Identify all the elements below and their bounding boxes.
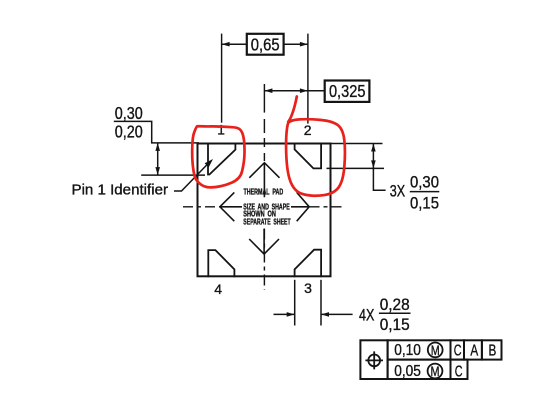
dimension line 0,65 — [222, 43, 308, 45]
bottom dimension line right arrow — [321, 313, 353, 315]
dimension box 0,65 — [247, 34, 284, 55]
red annotation loop around pin 1 — [192, 126, 244, 187]
svg-text:SHOWN ON: SHOWN ON — [243, 211, 276, 219]
horizontal centerline (left) — [183, 206, 220, 208]
arrowhead left-dim down — [155, 167, 160, 175]
thermal pad arrow down — [249, 229, 279, 254]
dimension line 0,325 — [264, 90, 324, 92]
vertical centerline extension (solid upper part) — [263, 84, 265, 113]
svg-text:C: C — [454, 343, 462, 360]
arrowhead 0,65 right — [300, 42, 308, 47]
feature control frame outer box — [360, 340, 501, 379]
thermal pad arrow up — [249, 163, 279, 198]
svg-text:M: M — [431, 342, 440, 358]
pad pin 1 (chamfered pin-1 identifier pad) — [208, 143, 235, 175]
pin 1 leader line — [174, 163, 208, 191]
svg-text:0,28: 0,28 — [380, 296, 410, 314]
pad pin 3 — [295, 250, 322, 278]
horizontal centerline (right) — [310, 206, 346, 208]
right top extension line — [331, 143, 383, 145]
svg-text:M: M — [431, 363, 440, 379]
position tolerance symbol — [365, 351, 383, 369]
thermal pad arrow right — [291, 192, 309, 221]
svg-text:0,20: 0,20 — [115, 122, 143, 142]
right dimension line and elbow leader — [373, 144, 385, 191]
arrowhead right-dim down — [371, 160, 376, 168]
arrowhead left-dim up — [155, 143, 160, 151]
svg-text:B: B — [489, 342, 497, 359]
bottom extension line pad3 right — [320, 280, 322, 326]
svg-text:C: C — [455, 363, 463, 380]
svg-text:0,325: 0,325 — [329, 81, 366, 101]
svg-text:SEPARATE SHEET: SEPARATE SHEET — [243, 219, 290, 227]
left dimension fraction bar and elbow leader — [114, 121, 152, 142]
arrowhead 0,325 left — [264, 88, 272, 93]
vertical centerline (dashed into package) — [263, 119, 265, 161]
svg-text:3: 3 — [304, 280, 312, 296]
package body outline — [198, 144, 331, 277]
thermal pad note text — [243, 189, 290, 227]
extension line pin 2 center — [307, 34, 309, 124]
svg-text:0,15: 0,15 — [380, 316, 410, 334]
svg-text:4X: 4X — [359, 306, 374, 324]
left bottom extension line — [141, 174, 205, 176]
bottom dimension line left arrow — [274, 313, 295, 315]
svg-text:3X: 3X — [390, 182, 405, 200]
bottom extension line pad3 left — [294, 280, 296, 326]
svg-text:A: A — [470, 342, 478, 359]
arrowhead bottom-dim left (points right) — [287, 312, 295, 317]
arrowhead right-dim up — [371, 144, 376, 152]
extension line pin 1 center — [221, 34, 223, 123]
left top extension line — [151, 142, 199, 144]
svg-text:0,05: 0,05 — [394, 363, 421, 380]
svg-text:0,30: 0,30 — [410, 174, 439, 192]
thermal pad arrow left — [220, 192, 242, 221]
svg-text:4: 4 — [214, 281, 222, 297]
svg-text:0,30: 0,30 — [115, 103, 143, 123]
dimension box 0,325 — [325, 81, 370, 102]
pad pin 2 — [295, 143, 322, 169]
left dimension line with arrows — [157, 143, 159, 175]
pad pin 4 — [208, 250, 234, 277]
arrowhead bottom-dim right (points left) — [321, 312, 329, 317]
svg-text:Pin 1 Identifier: Pin 1 Identifier — [72, 183, 169, 199]
right bottom extension line — [327, 167, 385, 169]
red annotation loop around pin 2 — [286, 97, 345, 196]
svg-text:1: 1 — [217, 121, 225, 137]
svg-text:0,65: 0,65 — [251, 35, 280, 55]
svg-text:0,10: 0,10 — [394, 342, 421, 359]
arrowhead 0,325 right — [300, 88, 308, 93]
pin 1 leader arrowhead — [205, 159, 213, 167]
vertical centerline (lower package and below) — [263, 229, 265, 291]
arrowhead 0,65 left — [222, 42, 230, 47]
svg-text:THERMAL PAD: THERMAL PAD — [244, 189, 284, 197]
svg-text:2: 2 — [304, 122, 312, 138]
svg-text:0,15: 0,15 — [410, 195, 439, 213]
